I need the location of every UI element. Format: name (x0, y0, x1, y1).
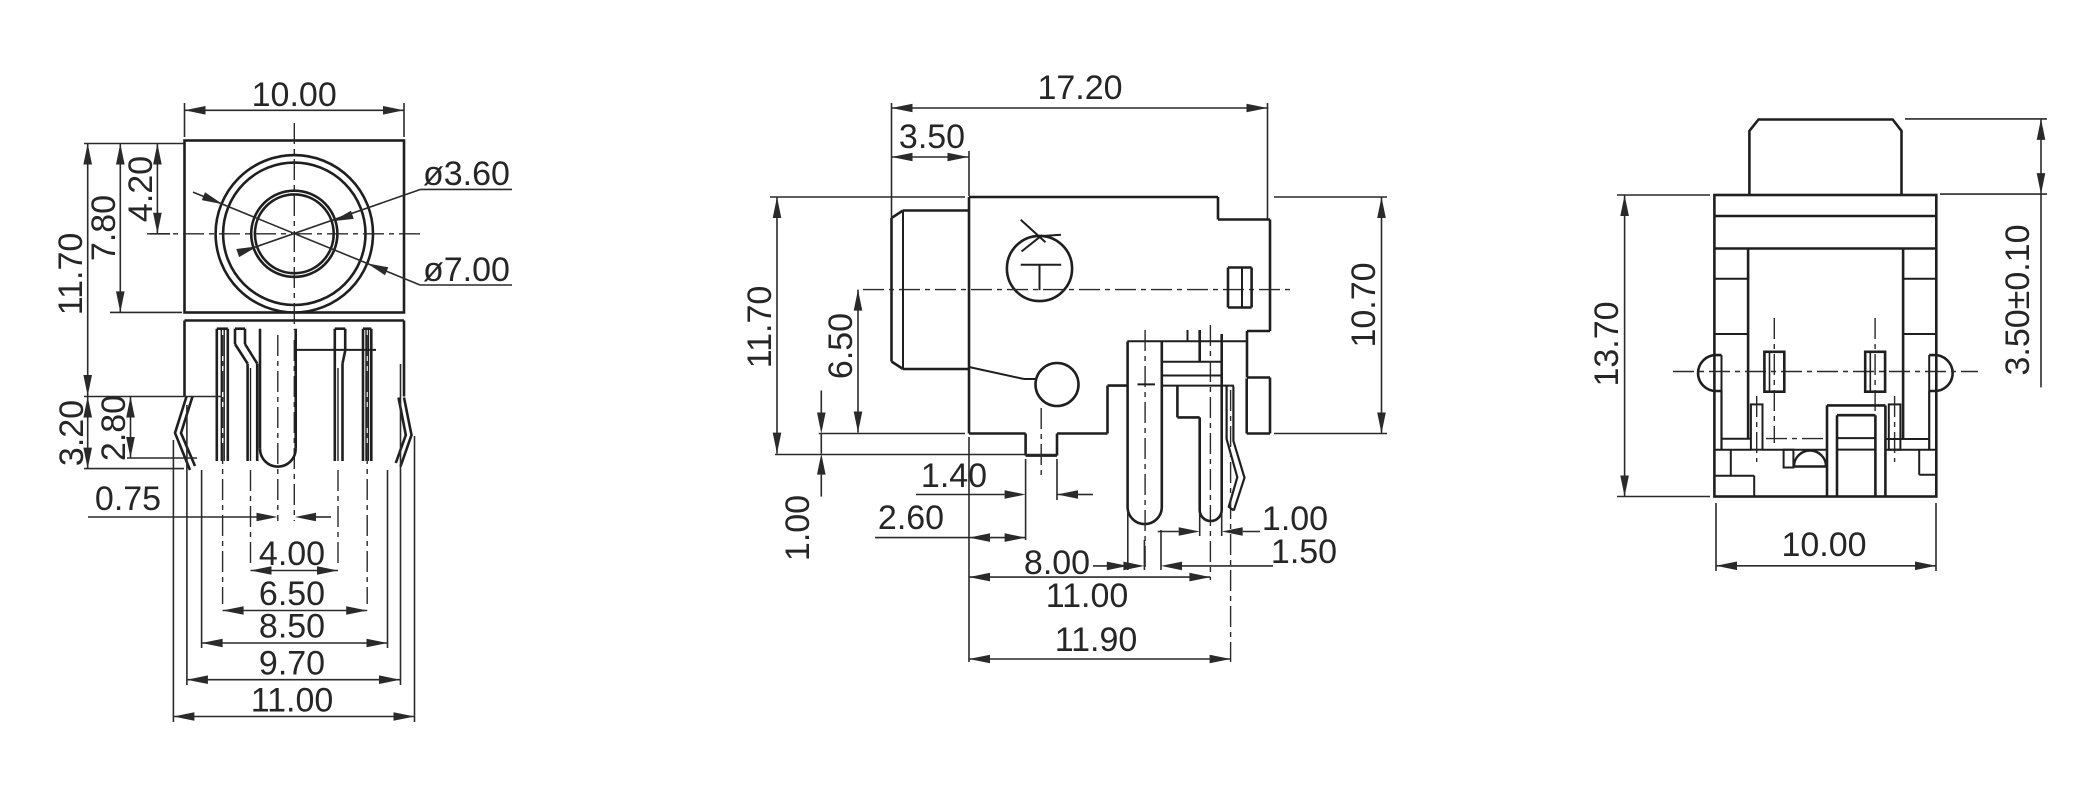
svg-text:2.80: 2.80 (95, 395, 133, 461)
svg-text:1.00: 1.00 (1262, 500, 1328, 538)
svg-text:3.50±0.10: 3.50±0.10 (1999, 224, 2037, 375)
svg-text:11.70: 11.70 (741, 286, 779, 369)
svg-text:ø3.60: ø3.60 (423, 155, 510, 193)
svg-text:4.00: 4.00 (259, 535, 325, 573)
svg-text:0.75: 0.75 (95, 480, 161, 518)
svg-text:7.80: 7.80 (85, 195, 123, 261)
svg-text:10.70: 10.70 (1345, 262, 1383, 347)
svg-text:3.50: 3.50 (899, 118, 965, 156)
svg-text:8.50: 8.50 (259, 608, 325, 646)
svg-text:11.00: 11.00 (1046, 577, 1129, 615)
svg-text:13.70: 13.70 (1588, 301, 1626, 386)
svg-text:6.50: 6.50 (822, 313, 860, 379)
svg-text:1.40: 1.40 (921, 457, 987, 495)
svg-text:17.20: 17.20 (1037, 69, 1122, 107)
svg-text:11.00: 11.00 (251, 682, 334, 720)
svg-text:2.60: 2.60 (878, 499, 944, 537)
svg-text:10.00: 10.00 (1781, 526, 1866, 564)
svg-text:4.20: 4.20 (122, 156, 160, 222)
svg-text:9.70: 9.70 (259, 645, 325, 683)
svg-text:ø7.00: ø7.00 (423, 251, 510, 289)
svg-text:3.20: 3.20 (53, 400, 91, 466)
svg-text:1.00: 1.00 (779, 495, 817, 561)
svg-text:1.50: 1.50 (1271, 533, 1337, 571)
svg-text:11.90: 11.90 (1055, 621, 1138, 659)
svg-text:10.00: 10.00 (252, 76, 337, 114)
